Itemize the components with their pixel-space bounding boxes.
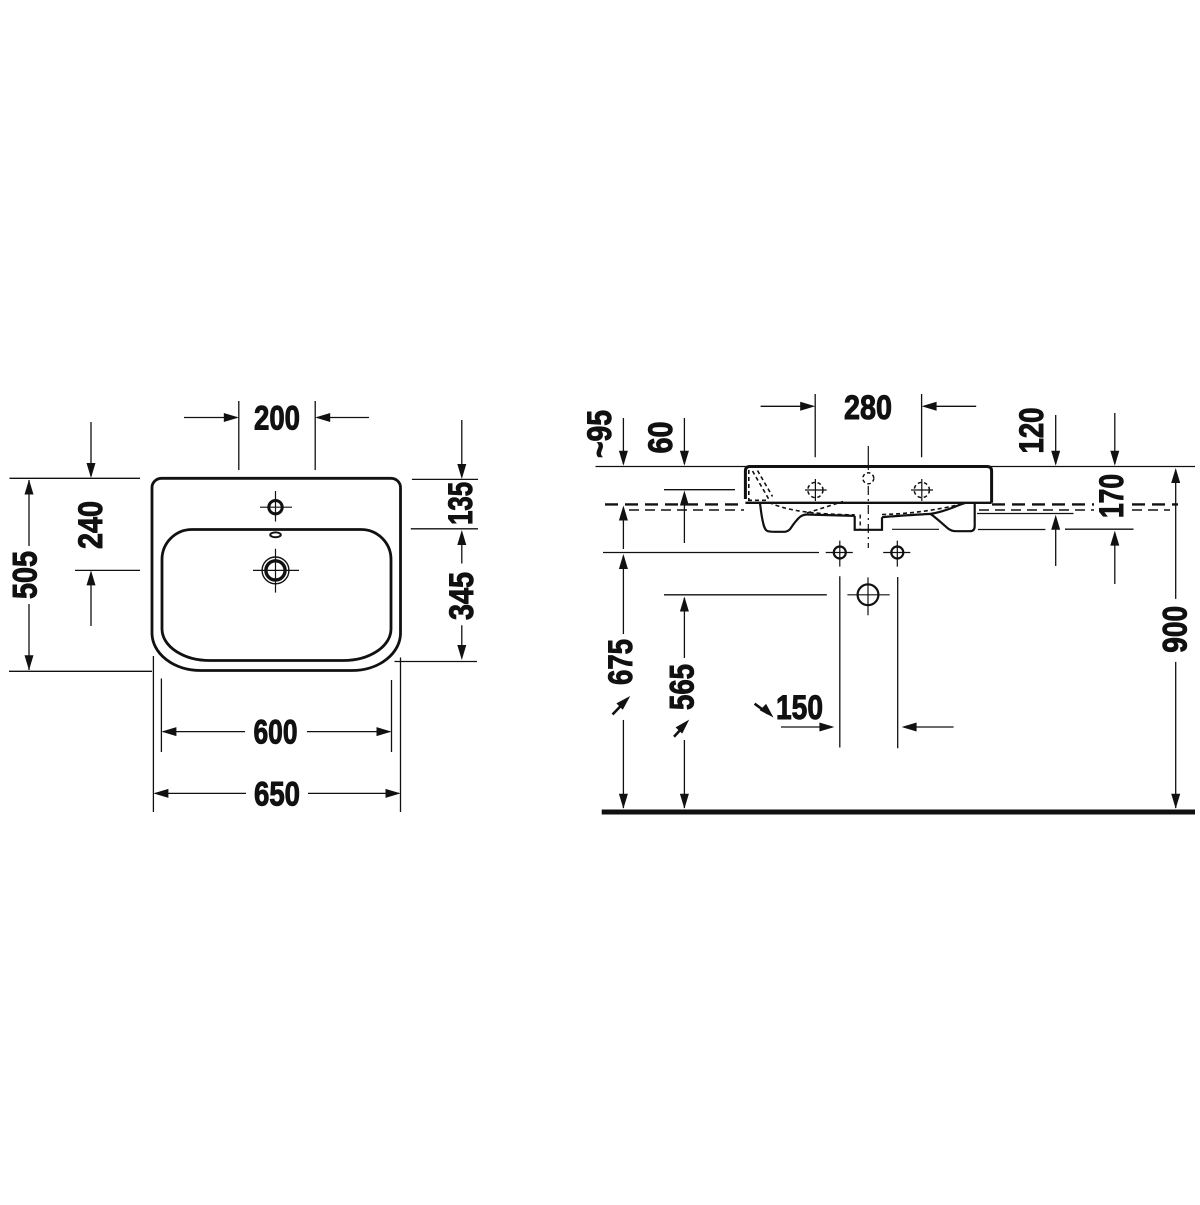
svg-text:600: 600 bbox=[254, 714, 298, 752]
dimension 565 line lower bbox=[683, 740, 685, 808]
left side tap hole (dashed circle) bbox=[808, 482, 823, 497]
right fixing hole bbox=[891, 547, 903, 559]
svg-text:675: 675 bbox=[602, 639, 640, 685]
dimension 120 top arrow bbox=[1055, 415, 1057, 464]
rim level line bbox=[596, 466, 1196, 468]
tap hole crosshair bbox=[260, 491, 292, 522]
dimension 900 line lower bbox=[1175, 662, 1177, 808]
dimension 280 left arrow bbox=[761, 405, 813, 407]
dimension 600 line right bbox=[307, 731, 390, 733]
fixing hole extension line right bbox=[897, 577, 899, 748]
hidden boss edge (dashed) bbox=[859, 515, 861, 530]
dimension 505 line lower segment bbox=[28, 604, 30, 670]
dimension 200 right arrow bbox=[317, 417, 369, 419]
bowl underside left line bbox=[807, 515, 855, 516]
svg-text:150: 150 bbox=[776, 689, 823, 727]
dimension 600 line left bbox=[163, 731, 245, 733]
dimension 60 tick bbox=[664, 489, 735, 491]
left fixing hole crosshair bbox=[826, 541, 853, 567]
dimension 505 top extension line bbox=[10, 477, 141, 479]
svg-text:~95: ~95 bbox=[581, 410, 619, 458]
fixing hole extension line left bbox=[839, 576, 841, 747]
dimension 675 line lower bbox=[622, 720, 624, 808]
svg-text:170: 170 bbox=[1093, 474, 1131, 518]
centreline through tap hole and drain bbox=[867, 446, 869, 470]
hidden bowl profile left (dashed) bbox=[769, 503, 855, 515]
dimension 600 extension lines bbox=[161, 679, 391, 753]
centre tap hole (dashed circle) bbox=[863, 473, 874, 484]
dimension 170 top arrow bbox=[1114, 413, 1116, 464]
svg-text:240: 240 bbox=[72, 501, 110, 549]
bowl underside right line bbox=[882, 514, 931, 517]
dimension 280 right arrow bbox=[924, 405, 976, 407]
left mounting leg bbox=[760, 503, 807, 532]
dimension 170 tick bbox=[1065, 528, 1134, 530]
level line 565 (drain height) bbox=[664, 594, 827, 596]
bowl silhouette rising to rim bbox=[931, 503, 966, 514]
dimension 650 extension lines bbox=[153, 656, 400, 812]
overflow slot bbox=[270, 532, 281, 537]
right mounting leg bbox=[931, 504, 975, 531]
drain boss bbox=[855, 516, 882, 530]
wall line upper (dashed) bbox=[605, 503, 1178, 505]
left side tap hole crosshair bbox=[805, 479, 827, 501]
inner bowl outline bbox=[162, 530, 391, 661]
dimension 675 line upper bbox=[622, 556, 624, 634]
svg-text:60: 60 bbox=[642, 422, 680, 454]
svg-text:200: 200 bbox=[254, 400, 300, 438]
dimension 150 right arrow bbox=[904, 726, 954, 728]
hidden bowl profile right (dashed) bbox=[882, 503, 963, 514]
dimension 150 left arrow bbox=[781, 726, 832, 728]
basin body outline bbox=[745, 467, 991, 503]
outer basin rim outline bbox=[152, 478, 401, 670]
tap hole circle bbox=[269, 501, 282, 514]
drain crosshair bbox=[253, 549, 299, 593]
dimension 150 leader arrow bbox=[755, 704, 768, 714]
dimension 120 bottom arrow bbox=[1055, 517, 1057, 566]
dimension 135 top arrow bbox=[461, 420, 463, 477]
dimension 650 line left bbox=[155, 792, 246, 794]
svg-text:280: 280 bbox=[844, 389, 892, 427]
level line 675 (fixing height) bbox=[603, 552, 819, 554]
dimension 135 bottom extension line bbox=[411, 528, 478, 530]
right fixing hole crosshair bbox=[883, 541, 910, 567]
hidden overflow channel (dashed, top-left) bbox=[748, 470, 750, 500]
hidden rear edge (dashed diagonal) bbox=[807, 502, 843, 514]
svg-text:565: 565 bbox=[664, 664, 702, 710]
svg-text:345: 345 bbox=[443, 572, 481, 620]
svg-text:135: 135 bbox=[442, 482, 480, 525]
dimension 675 leader arrow bbox=[613, 701, 627, 715]
dimension 240 tick at drain level bbox=[75, 569, 140, 571]
dimension 60 bottom arrow bbox=[683, 494, 685, 543]
svg-text:505: 505 bbox=[7, 551, 45, 599]
dimension 565 leader arrow bbox=[674, 724, 686, 737]
drain outlet crosshair bbox=[847, 577, 889, 615]
dimension ~95 top arrow bbox=[622, 418, 624, 464]
drain outlet circle bbox=[858, 584, 879, 605]
dimension 345 bottom extension line bbox=[395, 661, 478, 663]
svg-text:650: 650 bbox=[254, 775, 300, 813]
svg-text:900: 900 bbox=[1157, 606, 1195, 653]
basin bottom edge bbox=[745, 502, 991, 504]
dimension 505 line upper segment bbox=[28, 480, 30, 546]
dimension 900 line upper bbox=[1175, 470, 1177, 599]
drain outer circle bbox=[262, 557, 289, 584]
dimension 200 extension lines bbox=[239, 401, 315, 470]
dimension 200 left arrow bbox=[184, 417, 237, 419]
dimension 135 bottom arrow bbox=[461, 533, 463, 564]
right side tap hole crosshair bbox=[911, 479, 933, 501]
level line 120 below rim bbox=[977, 513, 1074, 515]
dimension 135 top extension line bbox=[412, 478, 478, 480]
dimension 505 bottom extension line bbox=[9, 670, 152, 672]
dimension 170 bottom arrow bbox=[1114, 534, 1116, 584]
svg-text:120: 120 bbox=[1013, 408, 1051, 454]
right side tap hole (dashed circle) bbox=[914, 482, 929, 497]
boss-level reference line bbox=[892, 528, 939, 530]
left fixing hole bbox=[834, 547, 846, 559]
dimension 280 extension lines bbox=[815, 394, 921, 457]
floor line bbox=[602, 810, 1195, 815]
drain inner circle bbox=[266, 561, 285, 580]
dimension 650 line right bbox=[308, 792, 399, 794]
dimension ~95 bottom arrow bbox=[622, 508, 624, 549]
dimension 565 line upper bbox=[683, 598, 685, 658]
boss bottom level line right bbox=[978, 529, 1045, 531]
dimension 240 top arrow bbox=[90, 422, 92, 476]
dimension 60 top arrow bbox=[683, 418, 685, 464]
wall line lower (dashed) bbox=[629, 509, 1170, 511]
dimension 345 bottom arrow bbox=[461, 625, 463, 655]
dimension 240 bottom arrow bbox=[90, 576, 92, 626]
